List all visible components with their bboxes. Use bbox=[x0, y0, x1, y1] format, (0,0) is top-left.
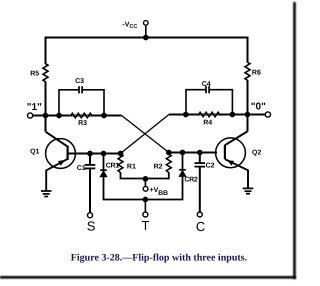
capacitor C3 left bracket bbox=[59, 90, 79, 116]
wire R1 bottom to VBB node bbox=[121, 172, 146, 178]
arrow Q2 emitter bbox=[227, 160, 234, 165]
capacitor C3 plate right bbox=[81, 86, 83, 93]
ground Q2 bar2 bbox=[245, 190, 252, 192]
capacitor C4 right bracket bbox=[209, 90, 232, 115]
svg-text:R3: R3 bbox=[78, 120, 87, 127]
terminal T bbox=[143, 212, 148, 217]
svg-text:CR2: CR2 bbox=[184, 177, 198, 184]
wire Q2 base bus bbox=[169, 152, 217, 154]
resistor R6 bbox=[245, 62, 250, 80]
wire output "0" bus bbox=[169, 114, 266, 116]
junction dot R2 bbox=[166, 150, 172, 156]
terminal C bbox=[197, 212, 202, 217]
transistor Q1 collector lead bbox=[46, 132, 67, 146]
resistor R3 bbox=[71, 113, 92, 118]
svg-text:Figure 3-28.—Flip-flop with th: Figure 3-28.—Flip-flop with three inputs… bbox=[71, 252, 248, 263]
svg-text:Q1: Q1 bbox=[30, 149, 39, 156]
junction dot R4 right bbox=[230, 112, 236, 118]
wire -Vcc stub bbox=[145, 25, 147, 38]
junction dot Vcc bbox=[143, 35, 149, 41]
diode CR2 bottom lead bbox=[145, 176, 182, 199]
ground Q1 bar2 bbox=[43, 193, 50, 195]
resistor R2 bbox=[166, 154, 171, 172]
resistor R5 bbox=[43, 64, 48, 82]
transistor Q2 base bar bbox=[224, 145, 226, 159]
junction dot C2 bbox=[197, 150, 203, 156]
transistor Q1 base bar bbox=[66, 146, 68, 160]
wire C2 to C terminal bbox=[199, 167, 201, 212]
junction dot "1" rail bbox=[43, 113, 49, 119]
terminal "1" bbox=[28, 113, 33, 118]
page edge right bbox=[293, 2, 296, 279]
svg-text:C1: C1 bbox=[77, 165, 86, 172]
svg-text:C2: C2 bbox=[206, 162, 215, 169]
resistor R4 bbox=[199, 112, 220, 117]
svg-text:R5: R5 bbox=[30, 70, 39, 77]
wire R2 bottom to VBB node bbox=[145, 172, 168, 178]
junction dot R1 bbox=[118, 151, 124, 157]
svg-text:C3: C3 bbox=[75, 78, 84, 85]
diode CR2 cathode bar bbox=[179, 169, 186, 171]
wire T stub bbox=[144, 200, 146, 212]
svg-text:C4: C4 bbox=[202, 81, 211, 88]
capacitor C4 plate left bbox=[205, 86, 207, 93]
svg-text:Q2: Q2 bbox=[252, 150, 261, 157]
svg-text:C: C bbox=[196, 219, 205, 234]
wire Q1 base bus bbox=[68, 153, 121, 155]
wire right rail upper bbox=[247, 37, 249, 63]
junction dot "0" rail bbox=[245, 112, 251, 118]
svg-text:T: T bbox=[142, 218, 150, 233]
transistor Q1 circle bbox=[46, 139, 76, 169]
junction dot R3 left bbox=[56, 113, 62, 119]
svg-text:R4: R4 bbox=[203, 119, 212, 126]
capacitor C2 plate bottom bbox=[195, 166, 206, 168]
diode CR1 cathode bar bbox=[100, 169, 107, 171]
svg-text:S: S bbox=[87, 219, 96, 234]
wire left rail upper bbox=[45, 37, 47, 65]
capacitor C4 plate right bbox=[208, 86, 210, 93]
wire cross-couple R4 to Q1 base bbox=[121, 115, 169, 154]
svg-text:R2: R2 bbox=[154, 164, 163, 171]
wire C1 to S terminal bbox=[89, 169, 91, 213]
junction dot T node bbox=[143, 197, 149, 203]
capacitor C3 right bracket bbox=[82, 90, 104, 116]
svg-text:R6: R6 bbox=[252, 70, 261, 77]
capacitor C4 left bracket bbox=[186, 90, 206, 115]
ground Q2 bar3 bbox=[246, 193, 250, 195]
transistor Q1 emitter lead bbox=[46, 159, 67, 191]
diode CR1 top lead bbox=[103, 154, 105, 171]
transistor Q2 collector lead bbox=[225, 131, 248, 145]
wire top supply bbox=[46, 37, 248, 39]
junction dot CR2 bbox=[180, 150, 186, 156]
junction dot R3 right bbox=[101, 113, 107, 119]
capacitor C2 top lead bbox=[199, 153, 201, 163]
wire output "1" bus bbox=[32, 115, 122, 117]
ground Q1 bar1 bbox=[41, 190, 52, 192]
junction dot VBB node bbox=[143, 176, 149, 182]
wire VBB stub bbox=[144, 179, 146, 187]
diode CR2 top lead bbox=[182, 153, 184, 170]
ground Q1 bar3 bbox=[44, 196, 48, 198]
wire cross-couple R3 to Q2 base bbox=[122, 116, 169, 153]
svg-text:"1": "1" bbox=[27, 102, 42, 113]
svg-text:CR1: CR1 bbox=[106, 163, 120, 170]
junction dot CR1 bbox=[101, 151, 107, 157]
transistor Q2 circle bbox=[216, 138, 246, 168]
wire right rail lower bbox=[247, 80, 249, 132]
capacitor C3 plate left bbox=[78, 86, 80, 93]
resistor R1 bbox=[118, 154, 123, 172]
terminal "0" bbox=[265, 112, 270, 117]
capacitor C1 plate top bbox=[85, 164, 96, 166]
ground Q2 bar1 bbox=[243, 187, 254, 189]
transistor Q2 emitter lead bbox=[225, 159, 248, 188]
wire left rail lower bbox=[45, 81, 47, 131]
svg-text:"0": "0" bbox=[251, 101, 266, 112]
arrow Q1 emitter bbox=[58, 160, 66, 166]
junction dot R4 left bbox=[183, 112, 189, 118]
capacitor C1 plate bottom bbox=[85, 167, 96, 169]
diode CR2 triangle bbox=[179, 171, 186, 177]
page edge bottom bbox=[0, 276, 296, 279]
terminal S bbox=[88, 213, 93, 218]
junction dot C1 bbox=[87, 151, 93, 157]
diode CR1 triangle bbox=[100, 171, 107, 177]
diode CR1 bottom lead bbox=[104, 177, 146, 200]
svg-text:R1: R1 bbox=[127, 164, 136, 171]
capacitor C2 plate top bbox=[195, 162, 206, 164]
capacitor C1 top lead bbox=[89, 154, 91, 165]
terminal -Vcc bbox=[144, 21, 149, 26]
terminal +VBB bbox=[143, 186, 148, 191]
